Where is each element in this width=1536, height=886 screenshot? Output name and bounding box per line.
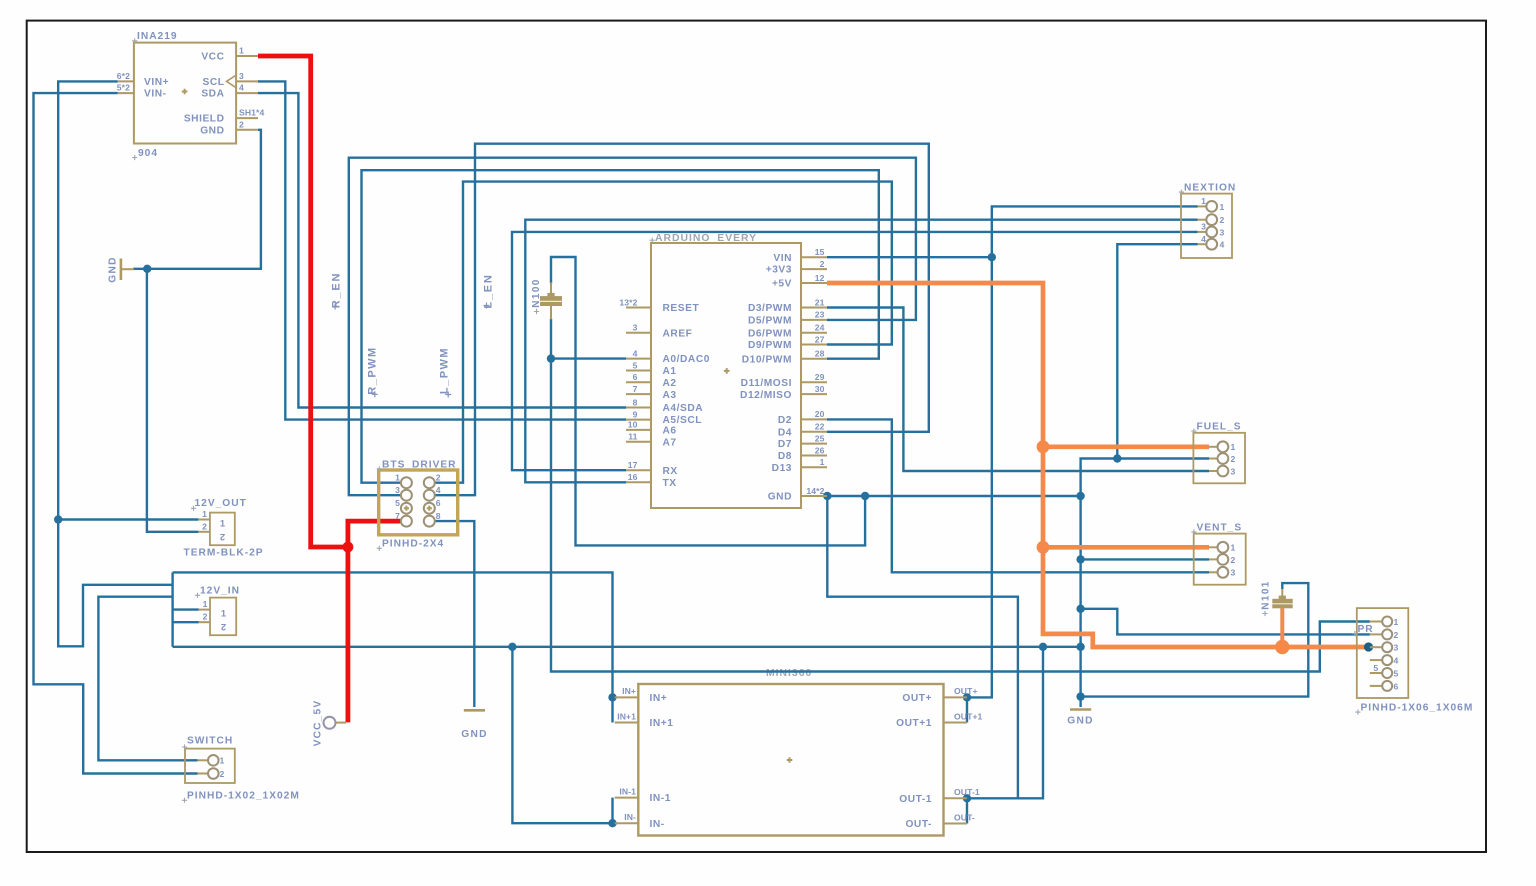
wire MINI360 IN- branch bbox=[512, 647, 614, 823]
connector X2 12V_IN bbox=[195, 586, 240, 636]
svg-text:2: 2 bbox=[239, 119, 244, 129]
node junction Arduino GND drop 1 bbox=[823, 492, 831, 500]
svg-text:7: 7 bbox=[633, 384, 638, 394]
svg-text:9: 9 bbox=[633, 409, 638, 419]
svg-text:23: 23 bbox=[815, 310, 825, 320]
svg-text:12: 12 bbox=[815, 273, 825, 283]
svg-text:TX: TX bbox=[663, 478, 677, 489]
svg-text:1: 1 bbox=[203, 599, 208, 609]
svg-text:SH1*4: SH1*4 bbox=[239, 108, 264, 118]
svg-text:VIN+: VIN+ bbox=[144, 77, 169, 88]
wire 12V feed to MINI360 IN+ bbox=[173, 572, 613, 722]
svg-text:D6/PWM: D6/PWM bbox=[748, 328, 792, 339]
svg-text:20: 20 bbox=[815, 409, 825, 419]
svg-text:24: 24 bbox=[815, 323, 825, 333]
ground symbol right bbox=[1067, 710, 1094, 727]
connector S1 SWITCH PINHD-1X02 bbox=[182, 736, 300, 803]
wire 12V_IN vertical bus bbox=[171, 572, 173, 646]
svg-text:FUEL_S: FUEL_S bbox=[1197, 422, 1242, 433]
svg-text:6: 6 bbox=[633, 372, 638, 382]
wire red branch down to VCC_5V symbol bbox=[345, 547, 350, 722]
svg-text:4: 4 bbox=[633, 348, 638, 358]
svg-text:3: 3 bbox=[1231, 466, 1236, 476]
connector J3 FUEL_S header bbox=[1191, 422, 1245, 484]
svg-text:5: 5 bbox=[633, 360, 638, 370]
node junction GND line to IN- bbox=[508, 643, 516, 651]
node junction GND bus at VENT_S pin2 bbox=[1076, 555, 1084, 563]
svg-text:1: 1 bbox=[221, 608, 226, 619]
svg-text:R_PWM: R_PWM bbox=[367, 346, 379, 394]
svg-text:17: 17 bbox=[628, 460, 638, 470]
svg-text:PINHD-1X02_1X02M: PINHD-1X02_1X02M bbox=[187, 791, 300, 802]
wire MINI360 IN-1 to IN- strap bbox=[611, 798, 613, 824]
wire 12V_OUT pin1 branch bbox=[58, 518, 198, 520]
svg-text:A0/DAC0: A0/DAC0 bbox=[663, 354, 710, 365]
svg-text:4: 4 bbox=[1201, 234, 1206, 244]
svg-text:8: 8 bbox=[633, 397, 638, 407]
node junction 12V_OUT pin1 on VIN+ line bbox=[54, 515, 62, 523]
wire D3 to FUEL_S pin3 bbox=[827, 308, 1209, 472]
svg-text:A1: A1 bbox=[663, 366, 677, 377]
svg-text:5*2: 5*2 bbox=[117, 83, 130, 93]
wire VENT_S pin2 to GND bus bbox=[1081, 558, 1209, 560]
wire NEXTION pin1 to VIN node bbox=[992, 206, 1198, 257]
svg-text:2: 2 bbox=[1394, 630, 1399, 640]
wire MINI360 OUT-1 row to GND line riser bbox=[967, 647, 1043, 799]
wire Arduino VIN pin to node bbox=[827, 256, 992, 258]
svg-text:NEXTION: NEXTION bbox=[1184, 183, 1236, 194]
wire N100 top to Arduino GND bbox=[551, 257, 865, 545]
svg-text:IN-: IN- bbox=[624, 812, 636, 822]
svg-text:AREF: AREF bbox=[663, 328, 693, 339]
IC U2 MINI360 body bbox=[615, 684, 983, 836]
svg-text:2: 2 bbox=[1231, 555, 1236, 565]
node junction MINI360 IN- bbox=[608, 819, 616, 827]
svg-text:3: 3 bbox=[1220, 227, 1225, 237]
svg-text:PINHD-2X4: PINHD-2X4 bbox=[382, 539, 444, 550]
svg-text:5: 5 bbox=[1394, 668, 1399, 678]
svg-text:+3V3: +3V3 bbox=[766, 265, 792, 276]
svg-text:13*2: 13*2 bbox=[619, 297, 637, 307]
svg-text:2: 2 bbox=[436, 473, 441, 483]
svg-text:A2: A2 bbox=[663, 378, 677, 389]
svg-text:SHIELD: SHIELD bbox=[184, 114, 225, 125]
svg-text:D10/PWM: D10/PWM bbox=[742, 354, 792, 365]
wire orange N101 bottom stub bbox=[1280, 608, 1284, 647]
wire RX to NEXTION pin3 bbox=[512, 232, 1198, 470]
connector J1 BTS_DRIVER PINHD-2X4 bbox=[377, 460, 458, 551]
svg-text:1: 1 bbox=[1220, 202, 1225, 212]
connector J4 VENT_S header bbox=[1191, 522, 1245, 584]
svg-text:1: 1 bbox=[220, 756, 225, 766]
svg-text:VCC_5V: VCC_5V bbox=[313, 700, 324, 747]
node junction GND bus at PR pin2 branch bbox=[1076, 605, 1084, 613]
svg-text:RX: RX bbox=[663, 466, 678, 477]
svg-text:D7: D7 bbox=[778, 439, 792, 450]
svg-text:A6: A6 bbox=[663, 426, 677, 437]
node junction MINI360 OUT+ bbox=[963, 693, 971, 701]
svg-text:1: 1 bbox=[220, 518, 225, 529]
svg-text:2: 2 bbox=[220, 532, 225, 543]
wire orange +5V net from Arduino bbox=[827, 283, 1369, 647]
svg-text:4: 4 bbox=[1220, 240, 1225, 250]
node junction GND near INA219 bbox=[143, 265, 151, 273]
svg-text:VCC: VCC bbox=[201, 52, 224, 63]
wire red branch to BTS pin7 bbox=[348, 521, 403, 547]
wire Arduino GND pin bus bbox=[827, 495, 1081, 497]
svg-text:D4: D4 bbox=[778, 427, 792, 438]
capacitor N101 bbox=[1261, 580, 1293, 616]
wire SCL from INA219 to A5/SCL bbox=[258, 81, 626, 419]
svg-text:D11/MOSI: D11/MOSI bbox=[741, 378, 792, 389]
svg-text:4: 4 bbox=[436, 485, 441, 495]
svg-text:1: 1 bbox=[1231, 442, 1236, 452]
svg-text:GND: GND bbox=[1067, 716, 1094, 727]
svg-text:1: 1 bbox=[1394, 617, 1399, 627]
wire BTS pin8 to GND symbol bbox=[429, 521, 474, 707]
svg-text:11: 11 bbox=[628, 432, 637, 442]
svg-text:2: 2 bbox=[203, 612, 208, 622]
svg-text:3: 3 bbox=[395, 485, 400, 495]
IC U 904 INA219 bbox=[117, 31, 265, 160]
wire NEXTION pin4 down to FUEL_S pin2 net bbox=[1117, 244, 1197, 458]
svg-text:A4/SDA: A4/SDA bbox=[663, 403, 704, 414]
node red junction VCC_5V bbox=[343, 542, 354, 553]
connector J5 PR PINHD-1X06 bbox=[1352, 608, 1473, 715]
svg-text:16: 16 bbox=[628, 472, 638, 482]
svg-text:3: 3 bbox=[1394, 643, 1399, 653]
wire D5 to BTS pin3 bbox=[349, 158, 916, 496]
svg-text:SWITCH: SWITCH bbox=[187, 736, 233, 747]
svg-text:BTS_DRIVER: BTS_DRIVER bbox=[382, 460, 457, 471]
node junction MINI360 IN+ bbox=[608, 693, 616, 701]
svg-text:4: 4 bbox=[1394, 656, 1399, 666]
svg-text:IN-: IN- bbox=[650, 819, 665, 830]
svg-text:2: 2 bbox=[820, 259, 825, 269]
svg-text:IN-1: IN-1 bbox=[650, 793, 671, 804]
svg-text:OUT-1: OUT-1 bbox=[899, 794, 932, 805]
svg-text:6*2: 6*2 bbox=[117, 71, 130, 81]
IC U1 ARDUINO_EVERY body bbox=[619, 243, 827, 508]
supply symbol VCC_5V bbox=[313, 700, 347, 747]
svg-text:D8: D8 bbox=[778, 451, 792, 462]
capacitor N100 bbox=[531, 278, 562, 319]
svg-text:1: 1 bbox=[202, 509, 207, 519]
svg-text:6: 6 bbox=[1394, 681, 1399, 691]
svg-text:7: 7 bbox=[395, 511, 400, 521]
svg-text:2: 2 bbox=[1220, 215, 1225, 225]
svg-text:SDA: SDA bbox=[201, 89, 224, 100]
svg-text:OUT+: OUT+ bbox=[902, 693, 932, 704]
svg-text:+5V: +5V bbox=[772, 279, 792, 290]
node junction GND bus at Arduino GND row bbox=[1076, 492, 1084, 500]
svg-text:IN+: IN+ bbox=[650, 693, 668, 704]
svg-text:4: 4 bbox=[239, 83, 244, 93]
svg-text:IN-1: IN-1 bbox=[619, 786, 636, 796]
svg-text:L_EN: L_EN bbox=[483, 273, 495, 308]
connector J2 NEXTION header bbox=[1179, 183, 1236, 259]
wire INA219 GND pin to GND symbol bbox=[133, 130, 261, 269]
ground symbol under BTS driver bbox=[461, 710, 488, 740]
svg-text:IN+1: IN+1 bbox=[617, 711, 636, 721]
svg-text:2: 2 bbox=[220, 769, 225, 779]
svg-text:OUT-1: OUT-1 bbox=[954, 787, 980, 797]
node junction MINI360 OUT-1 bbox=[963, 794, 971, 802]
svg-text:A3: A3 bbox=[663, 390, 677, 401]
svg-text:3: 3 bbox=[633, 323, 638, 333]
svg-text:INA219: INA219 bbox=[137, 31, 178, 42]
wire N101 top to GND net bbox=[1081, 583, 1309, 697]
wire 12V_OUT pin2 to GND node bbox=[147, 269, 199, 532]
wire N100 bottom to A0 and PR pin1 bbox=[551, 319, 1370, 672]
svg-text:904: 904 bbox=[138, 148, 158, 159]
svg-text:1: 1 bbox=[239, 46, 244, 56]
svg-text:D9/PWM: D9/PWM bbox=[748, 340, 792, 351]
svg-text:VIN: VIN bbox=[773, 253, 792, 264]
svg-text:GND: GND bbox=[200, 125, 224, 136]
svg-text:MINI360: MINI360 bbox=[766, 668, 812, 679]
node orange junction VENT_S pin1 bbox=[1037, 541, 1050, 554]
svg-text:N100: N100 bbox=[531, 278, 542, 308]
svg-text:3: 3 bbox=[1231, 568, 1236, 578]
svg-text:L_PWM: L_PWM bbox=[439, 347, 451, 394]
svg-text:GND: GND bbox=[108, 256, 119, 283]
svg-text:12V_OUT: 12V_OUT bbox=[195, 498, 247, 509]
svg-text:29: 29 bbox=[815, 372, 825, 382]
svg-text:5: 5 bbox=[1373, 663, 1378, 673]
node junction VIN net bbox=[988, 253, 996, 261]
svg-text:3: 3 bbox=[1201, 222, 1206, 232]
wire SWITCH pin1 to 12V_IN net bbox=[98, 597, 197, 761]
node junction NEXTION pin4 / FUEL_S pin2 bbox=[1113, 454, 1121, 462]
wire orange branch FUEL_S pin1 bbox=[1043, 444, 1209, 449]
connector X1 12V_OUT TERM-BLK-2P bbox=[184, 498, 264, 559]
svg-text:1: 1 bbox=[1231, 543, 1236, 553]
svg-text:D3/PWM: D3/PWM bbox=[748, 303, 792, 314]
wire SDA from INA219 to A4/SDA bbox=[258, 93, 626, 407]
svg-text:GND: GND bbox=[461, 729, 488, 740]
wire D2 to VENT_S pin3 bbox=[827, 419, 1209, 572]
svg-text:27: 27 bbox=[815, 334, 825, 344]
wire D9 to BTS pin2 bbox=[429, 182, 892, 483]
svg-text:A7: A7 bbox=[663, 437, 677, 448]
svg-text:1: 1 bbox=[395, 473, 400, 483]
svg-text:12V_IN: 12V_IN bbox=[200, 586, 240, 597]
node junction OUT-1 riser on GND line bbox=[1039, 643, 1047, 651]
svg-text:D5/PWM: D5/PWM bbox=[748, 316, 792, 327]
node junction Arduino GND drop 2 bbox=[861, 492, 869, 500]
svg-text:10: 10 bbox=[628, 420, 638, 430]
svg-text:22: 22 bbox=[815, 422, 825, 432]
wire D4 to BTS pin4 bbox=[429, 144, 929, 496]
svg-text:OUT+1: OUT+1 bbox=[954, 711, 983, 721]
svg-text:14*2: 14*2 bbox=[806, 486, 824, 496]
svg-text:1: 1 bbox=[1201, 196, 1206, 206]
node junction GND bus at long GND line bbox=[1076, 643, 1084, 651]
svg-text:OUT-: OUT- bbox=[954, 812, 975, 822]
svg-text:OUT+1: OUT+1 bbox=[896, 718, 932, 729]
wire TX to NEXTION pin2 bbox=[525, 220, 1197, 483]
svg-text:1: 1 bbox=[820, 457, 825, 467]
svg-text:15: 15 bbox=[815, 247, 825, 257]
svg-text:PINHD-1X06_1X06M: PINHD-1X06_1X06M bbox=[1361, 703, 1474, 714]
svg-text:25: 25 bbox=[815, 433, 825, 443]
svg-text:26: 26 bbox=[815, 445, 825, 455]
node junction A0 on N100 line bbox=[547, 354, 555, 362]
wire red VCC_5V net from INA219 VCC bbox=[258, 56, 348, 547]
wire 12V_IN pin1 stub wire bbox=[173, 608, 199, 610]
svg-text:SCL: SCL bbox=[202, 77, 224, 88]
wire orange branch VENT_S pin1 bbox=[1043, 545, 1209, 550]
svg-text:2: 2 bbox=[1231, 454, 1236, 464]
svg-text:2: 2 bbox=[221, 622, 226, 633]
svg-text:IN+: IN+ bbox=[622, 686, 636, 696]
wire GND long horizontal to right GND bbox=[173, 646, 1081, 648]
ground symbol near INA219 bbox=[108, 256, 135, 283]
svg-text:5: 5 bbox=[395, 498, 400, 508]
wire MINI360 OUT-1 to OUT- strap bbox=[966, 798, 968, 823]
wire net 12V VIN+ from INA219 to 12V_IN area bbox=[58, 81, 172, 646]
svg-text:PR: PR bbox=[1358, 624, 1374, 635]
node pin end dot at PR pin3 bbox=[1364, 642, 1373, 651]
node orange junction N101 bottom bbox=[1275, 640, 1289, 654]
svg-text:D12/MISO: D12/MISO bbox=[740, 390, 792, 401]
wire GND drop to MINI360 OUT-1 bbox=[827, 496, 1018, 798]
svg-text:OUT-: OUT- bbox=[905, 819, 932, 830]
svg-text:8: 8 bbox=[436, 511, 441, 521]
wire VIN node down to MINI360 OUT+ bbox=[967, 257, 992, 697]
wire 12V_IN pin2 stub wire bbox=[173, 621, 199, 623]
wire FUEL_S pin2 to GND bus bbox=[1081, 459, 1209, 708]
svg-text:VENT_S: VENT_S bbox=[1197, 522, 1243, 533]
svg-text:D2: D2 bbox=[778, 415, 792, 426]
node junction GND bus at N101 return bbox=[1076, 692, 1084, 700]
svg-text:R_EN: R_EN bbox=[331, 272, 343, 309]
svg-text:21: 21 bbox=[815, 297, 825, 307]
svg-text:GND: GND bbox=[768, 492, 792, 503]
svg-text:28: 28 bbox=[815, 349, 825, 359]
wire D10 to BTS pin1 bbox=[362, 170, 879, 483]
svg-text:TERM-BLK-2P: TERM-BLK-2P bbox=[184, 548, 264, 559]
svg-text:IN+1: IN+1 bbox=[650, 718, 674, 729]
svg-text:VIN-: VIN- bbox=[144, 89, 167, 100]
svg-text:N101: N101 bbox=[1261, 580, 1272, 610]
node orange junction FUEL_S pin1 bbox=[1037, 440, 1050, 453]
svg-text:2: 2 bbox=[202, 521, 207, 531]
svg-text:30: 30 bbox=[815, 384, 825, 394]
svg-text:6: 6 bbox=[436, 498, 441, 508]
svg-text:RESET: RESET bbox=[663, 303, 700, 314]
svg-text:D13: D13 bbox=[772, 463, 792, 474]
wire GND bus to PR pin2 bbox=[1081, 609, 1370, 635]
svg-text:3: 3 bbox=[239, 71, 244, 81]
wire A0/DAC0 branch bbox=[551, 357, 626, 359]
wire net VIN- from INA219 to SWITCH pin2 bbox=[34, 93, 198, 773]
svg-text:OUT+: OUT+ bbox=[954, 686, 978, 696]
wire MINI360 OUT+ to OUT+1 strap bbox=[966, 697, 968, 722]
